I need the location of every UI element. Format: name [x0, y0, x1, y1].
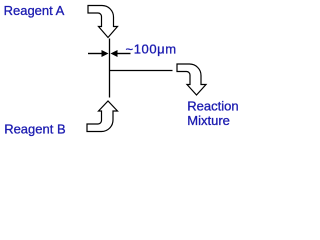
- dimension arrow right: [111, 50, 131, 57]
- svg-text:~100μm: ~100μm: [126, 42, 177, 57]
- outlet channel wire (horizontal): [109, 70, 173, 72]
- dimension arrow left: [88, 50, 109, 57]
- curved arrow right (Reaction Mixture outlet): [177, 64, 206, 95]
- svg-text:Reaction: Reaction: [187, 99, 238, 114]
- svg-text:Reagent A: Reagent A: [4, 3, 65, 18]
- inlet channel wire (vertical): [109, 39, 111, 98]
- svg-text:Mixture: Mixture: [187, 113, 230, 128]
- curved arrow top (Reagent A inlet): [88, 6, 118, 38]
- curved arrow bottom (Reagent B inlet): [87, 101, 118, 132]
- svg-text:Reagent B: Reagent B: [4, 122, 65, 137]
